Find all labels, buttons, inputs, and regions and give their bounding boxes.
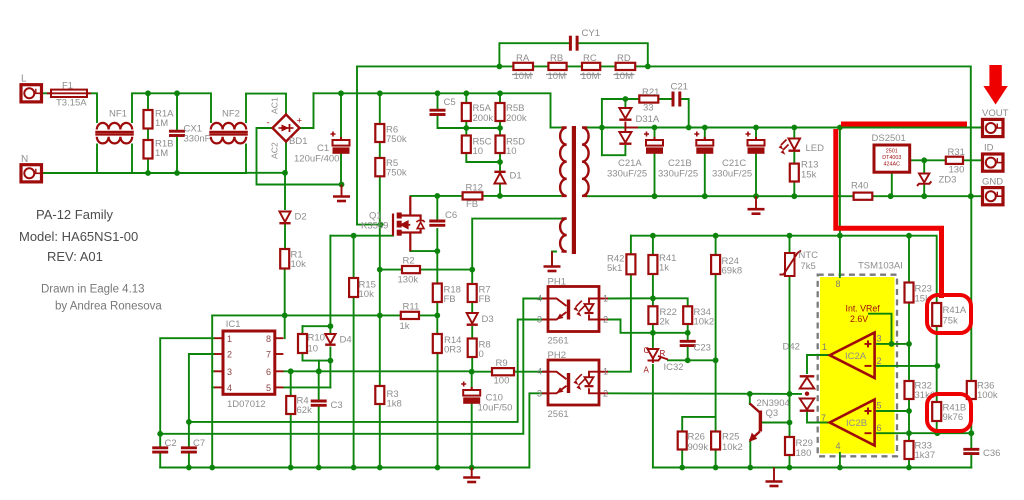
- svg-text:10: 10: [308, 344, 319, 355]
- wire R11 row: [212, 314, 401, 316]
- optocoupler PH1: [542, 287, 608, 332]
- wire pin2 row to R41 divider: [877, 365, 937, 367]
- wire R5A leads: [465, 93, 467, 103]
- resistor RB: [548, 63, 566, 70]
- resistor R29: [785, 437, 794, 455]
- capacitor C5: [430, 110, 446, 114]
- resistor R21: [639, 95, 658, 102]
- svg-text:2k: 2k: [660, 317, 670, 328]
- wire C3 lead: [318, 371, 320, 400]
- wire Q1 drain row R12 to transformer: [411, 195, 463, 197]
- zener diode ZD3: [917, 174, 931, 187]
- resistor R8: [468, 339, 477, 358]
- svg-text:4: 4: [836, 441, 841, 451]
- resistor R22: [648, 306, 657, 324]
- svg-text:ZD3: ZD3: [939, 175, 957, 186]
- wire C21B leads: [704, 128, 706, 141]
- wire R32 to R33 column: [908, 399, 910, 441]
- LED: [789, 139, 801, 151]
- resistor R2: [402, 266, 420, 273]
- resistor R26: [678, 432, 687, 450]
- wire left ground rail: [160, 393, 548, 467]
- wire secondary top pin to rectifier: [587, 127, 602, 129]
- resistor R6: [375, 124, 384, 142]
- wire NF1 bottom-right riser: [131, 145, 133, 174]
- svg-text:F1: F1: [62, 80, 73, 91]
- wire C1 leads: [340, 93, 342, 140]
- wire R36 column: [970, 197, 972, 381]
- svg-text:2: 2: [603, 388, 608, 398]
- svg-text:REV: A01: REV: A01: [47, 249, 103, 264]
- svg-text:C: C: [644, 346, 650, 355]
- capacitor C23: [680, 341, 696, 345]
- svg-text:4: 4: [537, 367, 542, 377]
- svg-text:DT4003: DT4003: [882, 155, 901, 161]
- wire rectifier input vertical: [601, 99, 603, 155]
- svg-text:7k5: 7k5: [801, 261, 816, 272]
- wire AC bottom rail: [97, 172, 246, 174]
- wire LED R13 column: [793, 128, 795, 139]
- wire R42 column to PH2 pin1: [630, 236, 632, 255]
- resistor R5A: [462, 103, 471, 121]
- resistor R24: [711, 255, 720, 274]
- svg-text:120uF/400: 120uF/400: [294, 154, 339, 165]
- svg-text:IC2A: IC2A: [845, 351, 867, 362]
- wire R22 leads: [652, 298, 654, 306]
- svg-text:200k: 200k: [506, 113, 527, 124]
- wire R24 column: [715, 236, 717, 255]
- capacitor C7: [181, 448, 197, 452]
- svg-text:3: 3: [227, 367, 232, 377]
- wire Q3 collector stub: [749, 394, 751, 404]
- svg-text:DS2501: DS2501: [872, 133, 906, 144]
- resistor R1: [280, 249, 289, 269]
- diode D2: [279, 212, 290, 224]
- svg-text:1k8: 1k8: [387, 399, 402, 410]
- svg-text:R10: R10: [308, 333, 325, 344]
- wire DS2501 bottom pin: [891, 172, 893, 196]
- svg-text:NF1: NF1: [109, 109, 127, 120]
- svg-text:130k: 130k: [398, 275, 419, 286]
- resistor R14: [433, 334, 442, 353]
- bridge rectifier BD1: [273, 115, 300, 142]
- svg-text:330uF/25: 330uF/25: [712, 169, 752, 180]
- resistor R1A: [144, 110, 153, 129]
- wire IC32 cathode: [652, 333, 654, 347]
- resistor R33: [905, 441, 914, 459]
- wire pin5 row: [877, 410, 909, 412]
- svg-text:C21A: C21A: [618, 158, 642, 169]
- svg-text:NTC: NTC: [799, 250, 819, 261]
- wire BD1 plus riser to DC rail: [300, 93, 314, 128]
- wire primary DC+ rail: [314, 93, 551, 127]
- svg-text:C2: C2: [165, 438, 177, 449]
- svg-text:R26: R26: [688, 432, 705, 443]
- connector GND pin: [983, 188, 1004, 205]
- resistor R7 ferrite bead: [468, 284, 477, 302]
- svg-text:BD1: BD1: [289, 136, 307, 147]
- common-mode choke NF1: [95, 123, 134, 144]
- svg-text:RD: RD: [617, 53, 631, 64]
- svg-text:1k: 1k: [659, 263, 669, 274]
- wire sense column R18 R14 to ground: [436, 251, 438, 283]
- svg-text:D42: D42: [783, 342, 800, 353]
- thermistor NTC: [780, 251, 802, 277]
- svg-text:C36: C36: [983, 448, 1000, 459]
- resistor R41: [648, 255, 657, 274]
- wire R41A R41B column: [936, 326, 938, 402]
- ground main rail: [463, 468, 480, 483]
- svg-text:Model: HA65NS1-00: Model: HA65NS1-00: [19, 229, 138, 244]
- resistor R3: [375, 386, 384, 404]
- svg-text:D31A: D31A: [636, 114, 660, 125]
- svg-text:69k8: 69k8: [722, 266, 743, 277]
- svg-text:10M: 10M: [615, 71, 634, 82]
- wire C36 leads: [970, 433, 972, 448]
- wire PH1 pin1 row to R34: [608, 298, 688, 306]
- wire N line from connector to bottom rail: [40, 172, 97, 174]
- wire secondary ground rail: [587, 195, 854, 197]
- svg-text:424AC: 424AC: [884, 162, 901, 168]
- svg-text:D2: D2: [295, 212, 307, 223]
- resistor R40: [854, 193, 873, 200]
- wire R10-D4 bar drop to pin6 row: [318, 361, 320, 372]
- capacitor C10 electrolytic: [461, 382, 480, 404]
- svg-text:Q3: Q3: [766, 408, 779, 419]
- wire RA-RD snubber row: [357, 65, 513, 67]
- svg-text:Int. VRef: Int. VRef: [846, 304, 881, 314]
- capacitor C6: [429, 221, 445, 225]
- svg-text:R21: R21: [642, 87, 659, 98]
- wire Q3 base to R29 column: [762, 422, 790, 424]
- wire C21A leads: [654, 128, 656, 141]
- MOSFET Q1: [393, 196, 425, 251]
- svg-text:R25: R25: [722, 432, 739, 443]
- resistor R11: [401, 312, 419, 319]
- svg-text:750k: 750k: [386, 134, 407, 145]
- svg-text:K3569: K3569: [361, 221, 388, 232]
- svg-text:15k: 15k: [801, 170, 817, 181]
- svg-text:VOUT: VOUT: [982, 108, 1009, 119]
- wire PH1 pin2 row: [608, 320, 688, 333]
- svg-text:R40: R40: [851, 181, 868, 192]
- svg-text:AC1: AC1: [270, 97, 280, 114]
- ground near Q3: [766, 468, 783, 487]
- svg-text:10: 10: [506, 146, 517, 157]
- resistor R41A: [932, 303, 941, 326]
- wire ZD3 leads: [923, 160, 925, 172]
- svg-text:2501: 2501: [886, 149, 898, 155]
- svg-text:2561: 2561: [548, 336, 569, 347]
- capacitor C1 electrolytic: [331, 132, 350, 154]
- wire C6 leads: [436, 196, 438, 220]
- wire R21 to C21 snubber: [658, 98, 672, 100]
- wire aux feedback column R7 head: [472, 219, 561, 270]
- svg-text:C3: C3: [331, 400, 343, 411]
- svg-text:C6: C6: [445, 210, 457, 221]
- svg-text:5: 5: [266, 383, 271, 393]
- wire NF2 bottom-right riser: [245, 145, 247, 173]
- svg-text:1M: 1M: [155, 118, 168, 129]
- svg-text:CY1: CY1: [582, 28, 600, 39]
- resistor RA: [513, 63, 533, 70]
- wire NF1 bottom-left riser: [96, 145, 98, 174]
- resistor R13: [790, 164, 799, 182]
- svg-text:0: 0: [479, 349, 484, 360]
- resistor R5B: [496, 103, 505, 121]
- svg-text:R11: R11: [403, 302, 420, 313]
- resistor R18 ferrite bead: [433, 284, 442, 303]
- svg-text:1M: 1M: [155, 148, 168, 159]
- connector X1 pin L: [21, 85, 42, 102]
- svg-text:C5: C5: [444, 97, 456, 108]
- wire transformer primary top lead: [551, 127, 561, 129]
- red highlight VOUT trace: [836, 124, 965, 296]
- svg-text:N: N: [21, 154, 28, 165]
- wire gate drive row: [330, 235, 393, 237]
- capacitor CX1: [169, 131, 185, 135]
- connector ID pin: [983, 154, 1004, 171]
- ground secondary: [748, 196, 765, 214]
- wire R15 leads: [353, 236, 355, 278]
- wire RA row to secondary-gnd right vertical: [648, 66, 971, 196]
- svg-text:4: 4: [227, 383, 232, 393]
- wire D1 bottom to drive row: [499, 185, 501, 196]
- wire R4 lead: [290, 371, 292, 396]
- resistor R1B: [144, 140, 153, 159]
- wire CY1 branch: [499, 43, 570, 66]
- wire pin6 row IC1 to R9: [283, 370, 492, 372]
- capacitor C2: [152, 448, 168, 452]
- wire D31A mid tap: [624, 123, 626, 133]
- red highlight circle R41A: [927, 295, 971, 333]
- wire fuse to NF1 top-left: [87, 93, 97, 122]
- svg-text:2561: 2561: [548, 409, 569, 420]
- dual diode D42: [800, 376, 815, 388]
- svg-text:Drawn in Eagle 4.13: Drawn in Eagle 4.13: [41, 284, 145, 296]
- wire L line from connector to fuse: [40, 92, 51, 94]
- svg-text:10k2: 10k2: [694, 317, 715, 328]
- svg-text:2: 2: [227, 350, 232, 360]
- svg-text:IC1: IC1: [226, 319, 241, 330]
- svg-text:10k: 10k: [291, 259, 307, 270]
- wire IC1 pin1 to C2 column: [160, 338, 214, 446]
- resistor R5: [375, 158, 384, 176]
- wire IC32 anode to right ground rail: [652, 365, 654, 468]
- wire D31A top lead: [624, 99, 626, 108]
- wire IC1 pin2 to C7 column: [189, 354, 214, 446]
- resistor R25: [711, 432, 720, 450]
- svg-text:RB: RB: [550, 53, 563, 64]
- wire BD1 minus to ground rail: [257, 128, 342, 185]
- svg-text:GND: GND: [982, 177, 1003, 188]
- wire R5C R5D bottom bar to D1: [466, 153, 500, 162]
- diode D1: [494, 172, 505, 184]
- svg-text:by Andrea Ronesova: by Andrea Ronesova: [55, 301, 162, 313]
- svg-text:C7: C7: [193, 438, 205, 449]
- svg-text:R2: R2: [403, 256, 415, 267]
- wire R3 leads: [379, 315, 381, 386]
- svg-text:1: 1: [603, 294, 608, 304]
- resistor R5D: [496, 136, 505, 154]
- resistor R32: [905, 381, 914, 399]
- svg-text:R12: R12: [466, 183, 483, 194]
- svg-text:A: A: [644, 366, 650, 375]
- svg-text:2.6V: 2.6V: [850, 314, 868, 324]
- wire VOUT sense drop to regulation rail: [839, 128, 841, 236]
- svg-text:180: 180: [796, 448, 812, 459]
- svg-text:10: 10: [473, 146, 484, 157]
- capacitor C21: [673, 92, 680, 107]
- wire regulation VOUT rail: [631, 236, 937, 303]
- resistor R5C: [462, 136, 471, 154]
- resistor R4: [286, 396, 295, 414]
- svg-text:PA-12 Family: PA-12 Family: [36, 207, 114, 222]
- resistor R23: [905, 283, 914, 303]
- svg-text:L: L: [21, 74, 27, 85]
- wire R5B leads: [499, 93, 501, 103]
- svg-text:D3: D3: [482, 314, 494, 325]
- wire D3 to R8: [471, 327, 473, 339]
- wire R41 leads: [652, 236, 654, 255]
- IC1 supervisor: [214, 331, 283, 394]
- svg-text:330nF: 330nF: [184, 134, 211, 145]
- svg-text:200k: 200k: [473, 113, 494, 124]
- capacitor CY1: [570, 36, 577, 51]
- red arrow VOUT: [983, 65, 1007, 105]
- svg-text:C1: C1: [317, 143, 329, 154]
- resistor R36: [967, 381, 976, 399]
- wire R7 to D3: [471, 302, 473, 313]
- svg-text:FB: FB: [479, 294, 491, 305]
- wire D2 to R1: [284, 225, 286, 249]
- svg-text:RA: RA: [516, 53, 530, 64]
- wire C2 C7 bottoms to ground rail: [159, 454, 161, 468]
- svg-text:1k: 1k: [400, 321, 410, 332]
- svg-text:10M: 10M: [581, 71, 600, 82]
- svg-text:C21B: C21B: [668, 158, 692, 169]
- op-amp IC2A: [830, 333, 875, 379]
- wire pin3 row to R23 column: [877, 343, 909, 345]
- red highlight circle R41B: [927, 394, 971, 431]
- diode D3: [467, 313, 478, 325]
- dual diode D31A: [619, 108, 631, 120]
- wire CX1 leads: [176, 93, 178, 130]
- junction dots: [145, 90, 151, 96]
- resistor R42: [626, 254, 635, 274]
- wire R9 to PH2 pin4: [514, 371, 548, 373]
- svg-text:IC32: IC32: [664, 362, 684, 373]
- wire snubber feed from RA row down to R5 column: [357, 66, 381, 224]
- wire R25 R26 bottoms: [681, 450, 683, 468]
- capacitor C21A electrolytic: [644, 132, 663, 154]
- svg-text:2: 2: [603, 315, 608, 325]
- svg-text:8: 8: [266, 334, 271, 344]
- svg-text:PH1: PH1: [548, 276, 566, 287]
- svg-text:T3.15A: T3.15A: [56, 98, 87, 109]
- svg-text:FB: FB: [444, 294, 456, 305]
- capacitor C21C electrolytic: [746, 132, 765, 154]
- svg-text:3: 3: [877, 334, 882, 344]
- wire VOUT rail: [602, 127, 983, 129]
- wire IC2A output to D42 top: [807, 355, 829, 373]
- svg-text:10M: 10M: [514, 71, 533, 82]
- svg-text:75k: 75k: [943, 316, 959, 327]
- resistor R12 ferrite bead: [463, 192, 483, 199]
- resistor R41B: [932, 402, 941, 421]
- svg-text:R41A: R41A: [943, 305, 967, 316]
- IC U2 TSM103AI highlighted block: [818, 275, 897, 457]
- resistor RC: [582, 63, 600, 70]
- optocoupler PH2: [542, 360, 608, 405]
- svg-text:AC2: AC2: [270, 142, 280, 159]
- svg-text:33: 33: [643, 103, 654, 114]
- svg-text:909k: 909k: [688, 442, 709, 453]
- wire R34 bottom to C23: [687, 324, 689, 340]
- IC DS2501: [874, 145, 910, 172]
- wire Q3 emitter to ground rail: [749, 440, 751, 468]
- resistor R31: [946, 157, 963, 164]
- wire C23 bottom to ref row: [687, 347, 689, 361]
- wire NF1 top-right riser and AC top rail to NF2: [132, 93, 211, 122]
- wire R23 leads: [908, 236, 910, 283]
- svg-text:IC2B: IC2B: [846, 418, 867, 429]
- svg-text:10k: 10k: [359, 289, 375, 300]
- svg-text:7: 7: [266, 350, 271, 360]
- svg-text:2: 2: [877, 356, 882, 366]
- wire R8 to pin6 row: [471, 357, 473, 372]
- wire VRef to pin3: [869, 314, 892, 344]
- transformer TR1: [572, 126, 576, 254]
- resistor R10: [298, 334, 307, 353]
- svg-text:1k37: 1k37: [915, 450, 936, 461]
- wire C5 lead and bottom row: [437, 93, 439, 110]
- svg-text:D1: D1: [510, 171, 522, 182]
- shunt regulator IC32: [648, 349, 669, 363]
- wire pin2 bus row to PH1 pin3: [189, 320, 548, 422]
- wire R25 R26 top bar: [682, 360, 715, 431]
- svg-text:10M: 10M: [548, 71, 567, 82]
- svg-text:330uF/25: 330uF/25: [658, 169, 698, 180]
- capacitor C21B electrolytic: [694, 132, 713, 154]
- svg-text:10uF/50: 10uF/50: [478, 403, 513, 414]
- capacitor C3: [311, 401, 327, 405]
- connector X2 pin N: [21, 165, 42, 182]
- resistor R34: [683, 306, 692, 324]
- wire pin6 row to divider and C36: [877, 432, 971, 434]
- wire TSM pin8 lead: [839, 236, 841, 277]
- wire DS2501 data to R31 and ID pin: [910, 159, 946, 161]
- svg-text:10k2: 10k2: [722, 442, 743, 453]
- common-mode choke NF2: [209, 123, 248, 144]
- svg-text:-: -: [267, 118, 270, 129]
- svg-text:LED: LED: [806, 143, 825, 154]
- svg-text:D4: D4: [340, 335, 352, 346]
- svg-text:C23: C23: [694, 343, 711, 354]
- svg-text:RC: RC: [583, 53, 597, 64]
- resistor RD: [616, 63, 636, 70]
- svg-text:5: 5: [877, 401, 882, 411]
- wire R1 bottom to pin8 column: [284, 269, 286, 339]
- svg-text:1: 1: [822, 342, 827, 352]
- svg-text:6: 6: [266, 367, 271, 377]
- svg-text:3: 3: [537, 315, 542, 325]
- svg-text:130: 130: [949, 165, 965, 176]
- svg-text:ID: ID: [984, 143, 994, 154]
- op-amp IC2B: [830, 400, 875, 446]
- wire gate column down to R10 D4: [329, 236, 331, 327]
- wire R2 row: [380, 269, 402, 271]
